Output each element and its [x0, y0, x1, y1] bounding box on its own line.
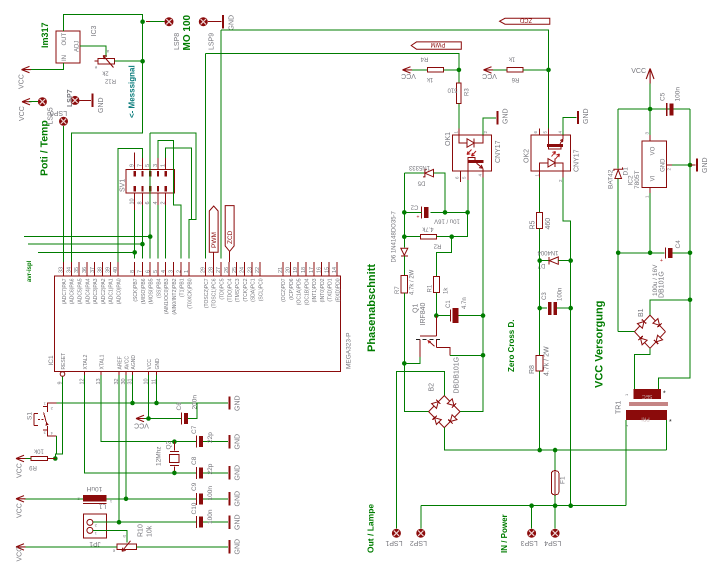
- ground symbol at OK2: [577, 111, 579, 124]
- svg-text:CNY17: CNY17: [574, 149, 581, 172]
- node junction left column C2: [402, 210, 407, 215]
- svg-text:OK2: OK2: [524, 149, 531, 163]
- resistor R8 4.7k/2W: [536, 356, 543, 371]
- svg-text:16: 16: [317, 267, 323, 273]
- IC1 top pin 22 (SCL)PC0: [259, 262, 261, 276]
- wire D6 to R7: [403, 256, 405, 276]
- svg-text:JP1: JP1: [89, 540, 101, 547]
- wire XTAL2 to crystal bottom: [85, 375, 197, 473]
- svg-text:C6: C6: [176, 402, 183, 411]
- svg-text:14: 14: [332, 267, 338, 273]
- node junction B1 top on right rail: [688, 298, 693, 303]
- svg-text:22p: 22p: [207, 432, 214, 443]
- pad LSP8: [165, 17, 174, 26]
- wire OK1 pin 5 down: [467, 180, 469, 212]
- svg-text:LSP9: LSP9: [209, 33, 216, 50]
- voltage regulator IC3 lm317: [56, 31, 80, 63]
- svg-text:C8: C8: [191, 456, 198, 465]
- IC1 top pin 7 (MISO)PB6: [141, 262, 143, 276]
- svg-text:10u / 16V: 10u / 16V: [434, 217, 460, 223]
- node junction MOSI: [148, 234, 153, 239]
- wire VCC pin 10 down: [148, 375, 150, 419]
- IC1 top pin 28 (TOSC1)PC6: [212, 262, 214, 276]
- wire AGND pin to GND line: [132, 375, 134, 403]
- svg-text:R4: R4: [420, 55, 428, 61]
- IC1 top pin 23 (SDA)PC1: [251, 262, 253, 276]
- node junction D5/C2: [443, 210, 448, 215]
- IC1 top pin 19 (OC1A)PD5: [297, 262, 299, 276]
- wire R10 left to VCC: [24, 546, 117, 548]
- IC1 top pin 17 (INT1)PD3: [313, 262, 315, 276]
- resistor R6 1k: [507, 68, 523, 72]
- svg-text:MEGA323-P: MEGA323-P: [346, 333, 353, 370]
- wire ADJ pin of IC3 to trimmer R12: [80, 46, 106, 57]
- svg-text:21: 21: [278, 267, 284, 273]
- wire R7 down to drain node: [403, 293, 405, 363]
- svg-text:(TOSC2)PC7: (TOSC2)PC7: [204, 278, 210, 308]
- svg-text:(OC1A)PD5: (OC1A)PD5: [296, 278, 302, 305]
- OK1 phototransistor: [468, 160, 484, 163]
- supply symbol VCC at R10: [16, 544, 26, 550]
- svg-text:33: 33: [59, 267, 65, 273]
- svg-text:100n: 100n: [675, 87, 682, 102]
- svg-text:(ADC1)PA1: (ADC1)PA1: [109, 278, 115, 304]
- wire SV1 pin 7 to IC pin 40: [118, 149, 142, 262]
- wire LSP9 to ground: [208, 21, 222, 23]
- svg-text:LSP1: LSP1: [385, 539, 402, 546]
- wire SV1 pin 4 column to IC pin 5: [157, 205, 159, 259]
- supply symbol VCC at L1: [16, 496, 26, 502]
- svg-text:4.7k / 2W: 4.7k / 2W: [544, 346, 551, 376]
- svg-text:34: 34: [66, 267, 72, 273]
- wire B1 top vertex to right rail: [650, 300, 690, 315]
- svg-text:(RXD)PD0: (RXD)PD0: [336, 278, 342, 302]
- svg-text:PRI: PRI: [641, 415, 649, 421]
- IC1 bottom pin 9 RESET: [60, 372, 65, 377]
- ground symbol C7: [229, 435, 231, 448]
- svg-text:<- Messsignal: <- Messsignal: [128, 65, 137, 118]
- svg-text:C9: C9: [191, 482, 198, 491]
- diode D7 1N4004: [540, 260, 550, 262]
- wire LSP7 to ground: [80, 99, 91, 101]
- wire SV1 pin 8 column to IC pin 7: [141, 205, 143, 259]
- IC1 top pin 6 (MOSI)PB5: [149, 262, 151, 276]
- svg-text:R9: R9: [29, 464, 37, 470]
- wire mains line B: [421, 505, 626, 507]
- svg-text:R6: R6: [511, 76, 519, 82]
- IC1 bottom pin 12 XTAL2: [84, 372, 86, 376]
- diode D6 1N4148DO35-7: [401, 248, 408, 255]
- svg-text:IN / Power: IN / Power: [500, 514, 509, 553]
- svg-text:460: 460: [545, 218, 552, 230]
- bridge rectifier B2 DBDB101G: [429, 396, 445, 412]
- svg-text:10k: 10k: [146, 525, 153, 537]
- wire L1 to VCC: [24, 498, 83, 500]
- wire R3 to OK1 pin 1: [458, 104, 460, 129]
- svg-text:27: 27: [216, 267, 222, 273]
- left rail down to D1: [617, 109, 619, 169]
- jumper JP1: [84, 514, 107, 538]
- resistor R5 460: [539, 178, 541, 213]
- IC1 top pin 39 (ADC1)PA1: [109, 262, 111, 276]
- IC1 top pin 25 (TMS)PC3: [236, 262, 238, 276]
- svg-text:OUT: OUT: [62, 33, 68, 46]
- wire source rail from OK1 pin4 down to B2: [460, 178, 483, 412]
- svg-text:(AIN0/INT2)PB2: (AIN0/INT2)PB2: [172, 278, 178, 314]
- wire IC pin 27 up to ZCD net: [220, 30, 222, 259]
- wire R4 to PWM junction: [444, 69, 459, 71]
- svg-text:R5: R5: [530, 220, 537, 229]
- svg-text:GND: GND: [235, 539, 242, 555]
- svg-text:200n: 200n: [192, 395, 199, 410]
- svg-text:OK1: OK1: [445, 132, 452, 146]
- svg-text:C5: C5: [659, 92, 666, 101]
- svg-text:IRF840: IRF840: [420, 302, 427, 325]
- ground symbol R10: [229, 540, 231, 553]
- node junction C4 left: [616, 251, 621, 256]
- transformer TR1 secondary coil: [634, 389, 662, 399]
- wire PWM net horizontal: [206, 54, 459, 70]
- wire XTAL1 to crystal top: [101, 375, 197, 442]
- node junction gate/C1: [434, 313, 439, 318]
- node junction rail on line B: [568, 503, 573, 508]
- wire to pad LSP8: [146, 21, 165, 23]
- wire TR1 primary right down to line A: [666, 420, 668, 450]
- svg-text:D5: D5: [417, 179, 425, 185]
- IC1 top pin 27 (TDI)PC5: [220, 262, 222, 276]
- node junction D7: [537, 258, 542, 263]
- svg-text:29: 29: [201, 267, 207, 273]
- svg-text:7: 7: [138, 270, 144, 273]
- OK2 internal LED: [540, 163, 548, 171]
- svg-text:2k: 2k: [101, 69, 108, 75]
- node junction LSP3 on line B: [529, 503, 534, 508]
- svg-text:ZCD: ZCD: [227, 230, 234, 244]
- IC1 bottom pin 11 GND: [156, 372, 158, 376]
- svg-text:6: 6: [145, 270, 151, 273]
- svg-text:XTAL1: XTAL1: [99, 354, 105, 369]
- svg-text:VCC: VCC: [17, 547, 24, 562]
- svg-text:CNY17: CNY17: [495, 140, 502, 163]
- svg-text:100n: 100n: [558, 288, 564, 301]
- resistor R2 4.7k: [404, 236, 420, 238]
- wire left rail down to B1: [617, 253, 619, 332]
- svg-text:LSP6: LSP6: [50, 109, 67, 116]
- svg-text:40: 40: [113, 267, 119, 273]
- svg-text:lm317: lm317: [40, 22, 50, 48]
- svg-text:LSP2: LSP2: [410, 539, 427, 546]
- svg-text:(SCL)PC0: (SCL)PC0: [259, 278, 265, 301]
- pad LSP1 lamp output: [392, 529, 401, 538]
- svg-text:(ADC7)PA7: (ADC7)PA7: [62, 278, 68, 304]
- wire VCC to R4: [412, 69, 428, 71]
- wire VCC to pad LSP5: [29, 101, 38, 103]
- svg-text:VCC: VCC: [482, 72, 497, 79]
- supply symbol VCC at IC power: [136, 415, 146, 421]
- svg-text:3: 3: [153, 164, 159, 167]
- svg-text:17: 17: [309, 267, 315, 273]
- svg-text:D7: D7: [537, 262, 545, 268]
- wire SV1 pin 5/6 column to IC pin 6: [149, 133, 151, 259]
- svg-text:+: +: [417, 215, 420, 221]
- wire VCC stem to 5V rail: [649, 84, 651, 110]
- IC1 top pin 3 (AIN0/INT2)PB2: [172, 262, 174, 276]
- SV1 pin stub column 0: [134, 158, 136, 170]
- svg-text:R1: R1: [428, 284, 434, 292]
- trimmer resistor R10 10k: [117, 544, 137, 550]
- svg-text:*: *: [663, 391, 666, 398]
- IC1 top pin 40 (ADC0)PA0: [117, 262, 119, 276]
- svg-text:25: 25: [232, 267, 238, 273]
- wire R1 down to gate node: [435, 292, 437, 315]
- wire D5 to C2 net: [434, 173, 446, 212]
- svg-text:4.7n: 4.7n: [462, 297, 468, 309]
- net label PWM horizontal arrow: [411, 42, 461, 49]
- resistor R1 1k: [433, 276, 439, 292]
- ground symbol C8: [229, 466, 231, 479]
- OK2 light arrows: [552, 152, 556, 157]
- svg-text:20: 20: [286, 267, 292, 273]
- svg-text:1k: 1k: [508, 55, 515, 61]
- microcontroller IC1 MEGA323-P body: [55, 276, 341, 372]
- svg-text:R12: R12: [104, 77, 116, 83]
- svg-text:(MOSI)PB5: (MOSI)PB5: [149, 278, 155, 304]
- svg-text:C1: C1: [446, 300, 452, 308]
- wire B2 left vertex to drain node: [404, 363, 428, 411]
- svg-text:GND: GND: [235, 514, 242, 530]
- wire outer loop LSP1 to B2 top: [396, 372, 444, 529]
- svg-text:LSP4: LSP4: [544, 539, 561, 546]
- wire R6 to ZCD junction: [523, 69, 549, 71]
- svg-text:VCC: VCC: [19, 74, 26, 89]
- pad LSP3 mains input: [527, 529, 536, 538]
- svg-text:(OC2)PD7: (OC2)PD7: [281, 278, 287, 302]
- wire B1 bottom to transformer SEC left: [635, 348, 650, 389]
- capacitor C5 100n: [666, 103, 668, 116]
- svg-text:10k: 10k: [33, 447, 44, 453]
- wire S1 to GND line: [56, 402, 57, 404]
- node junction source rail: [481, 353, 486, 358]
- svg-text:VCC Versorgung: VCC Versorgung: [594, 301, 606, 388]
- ground symbol C10: [229, 516, 231, 529]
- svg-text:L1: L1: [99, 503, 107, 510]
- svg-text:S1: S1: [27, 412, 34, 420]
- svg-text:28: 28: [208, 267, 214, 273]
- wire GND pin to GND line: [156, 375, 158, 403]
- svg-text:VCC: VCC: [401, 72, 416, 79]
- node junction reset/R9: [53, 456, 58, 461]
- svg-text:22p: 22p: [207, 463, 214, 474]
- svg-text:39: 39: [105, 267, 111, 273]
- wire AREF down to JP1 node: [118, 375, 120, 522]
- capacitor C4 100u/16V polarized: [618, 252, 664, 254]
- resistor R9 10k: [31, 456, 48, 460]
- wire IC pin 29 up to PWM net: [205, 54, 207, 259]
- svg-text:2: 2: [176, 270, 182, 273]
- wire SV1 pin 10 column to IC pin 8: [134, 210, 136, 259]
- ground symbol at OK1: [497, 111, 499, 124]
- svg-text:24: 24: [240, 267, 246, 273]
- wire OK1 pin 2 to ground: [483, 118, 496, 135]
- pad LSP4 mains input: [551, 529, 560, 538]
- svg-text:MO 100: MO 100: [182, 14, 193, 50]
- svg-text:4: 4: [153, 201, 159, 204]
- net label ZCD vertical arrow at pin 26: [225, 206, 234, 252]
- svg-text:VCC: VCC: [631, 68, 646, 75]
- svg-text:Zero Cross D.: Zero Cross D.: [507, 320, 516, 372]
- capacitor C7 22p: [196, 436, 198, 448]
- svg-text:GND: GND: [235, 434, 242, 450]
- svg-text:3: 3: [169, 270, 175, 273]
- capacitor C2 10u/16V polarized: [421, 206, 423, 218]
- svg-text:4.7k / 2W: 4.7k / 2W: [410, 269, 416, 295]
- IC1 top pin 35 (ADC5)PA5: [78, 262, 80, 276]
- node junction at measurement rail / LSP8 tap: [140, 19, 145, 24]
- svg-text:GND: GND: [503, 108, 510, 124]
- svg-text:ADJ: ADJ: [74, 41, 80, 52]
- svg-text:(T0/XCK)PB0: (T0/XCK)PB0: [187, 278, 193, 309]
- wire down to OK2 pin 5: [548, 70, 550, 135]
- svg-text:35: 35: [74, 267, 80, 273]
- supply symbol VCC at R4: [403, 67, 413, 73]
- svg-text:15: 15: [324, 267, 330, 273]
- svg-text:9: 9: [130, 164, 136, 167]
- connector SV1 10-pin ISP header: [126, 170, 174, 194]
- trimmer resistor R12 2k: [98, 59, 115, 64]
- svg-text:SEC: SEC: [642, 393, 653, 399]
- optocoupler OK2 CNY17: [531, 135, 571, 171]
- diode D1 BAT42 schottky: [615, 170, 622, 179]
- IC1 top pin 2 (T1)PB1: [180, 262, 182, 276]
- supply symbol VCC at LSP5: [22, 99, 32, 105]
- svg-text:C4: C4: [675, 240, 682, 249]
- svg-text:R7: R7: [395, 286, 401, 294]
- node junction R8 on line A: [537, 448, 542, 453]
- svg-text:D1: D1: [622, 167, 629, 176]
- SV1 pin stub column 4: [165, 158, 167, 170]
- svg-text:IC1: IC1: [48, 355, 55, 366]
- SV1 pin stub column 1: [141, 158, 143, 170]
- svg-text:38: 38: [98, 267, 104, 273]
- svg-text:TR1: TR1: [615, 401, 622, 414]
- svg-text:AVCC: AVCC: [124, 356, 130, 370]
- wire R8 down to mains line A: [539, 371, 541, 450]
- svg-text:23: 23: [247, 267, 253, 273]
- wire C3 to R8: [539, 308, 541, 356]
- node junction R12 / rail: [140, 59, 145, 64]
- supply symbol VCC above regulator: [646, 69, 654, 84]
- crystal Q2 12Mhz: [173, 442, 175, 451]
- ISP bus wire MOSI: [24, 236, 150, 238]
- svg-text:ZCD: ZCD: [519, 17, 532, 23]
- node junction AGND: [130, 401, 135, 406]
- node junction VCC arrow: [648, 107, 653, 112]
- transformer TR1 core lines: [629, 402, 668, 404]
- svg-text:1N4004: 1N4004: [537, 249, 559, 255]
- svg-text:R2: R2: [433, 242, 441, 248]
- wire RESET column: [55, 376, 62, 458]
- svg-text:(MISO)PB6: (MISO)PB6: [141, 278, 147, 304]
- svg-text:100n: 100n: [207, 486, 214, 501]
- SV1 pin stub column 2: [149, 158, 151, 170]
- svg-text:Poti / Temp: Poti / Temp: [39, 120, 51, 176]
- node junction F1 top on line A: [553, 448, 558, 453]
- svg-text:LSP8: LSP8: [174, 33, 181, 50]
- wire pin 26 stub to ZCD label: [229, 251, 231, 262]
- wire JP1 pin 1 to R10 wiper: [93, 530, 127, 542]
- svg-text:VO: VO: [651, 146, 657, 155]
- svg-text:1k: 1k: [444, 287, 450, 294]
- wire L1 right to node: [107, 498, 127, 500]
- svg-text:(INT1)PD3: (INT1)PD3: [312, 278, 318, 302]
- IC1 top pin 14 (RXD)PD0: [336, 262, 338, 276]
- IC1 top pin 33 (ADC7)PA7: [63, 262, 65, 276]
- svg-text:C7: C7: [191, 425, 198, 434]
- node junction R2 left: [402, 234, 407, 239]
- voltage regulator IC2 7805T: [642, 141, 666, 188]
- svg-text:4.7k: 4.7k: [421, 226, 433, 232]
- IC1 top pin 29 (TOSC2)PC7: [205, 262, 207, 276]
- node junction PWM/R4/R3: [457, 68, 462, 73]
- wire D1 down left rail: [617, 179, 619, 253]
- node junction R2 right: [449, 234, 454, 239]
- wire R2 right down to R1: [436, 237, 451, 277]
- wire S1 lower contact to reset net: [55, 436, 57, 454]
- capacitor C10 100n: [119, 521, 197, 523]
- svg-text:1N5333: 1N5333: [408, 164, 430, 170]
- svg-text:*: *: [669, 419, 672, 426]
- IC1 top pin 34 (ADC6)PA6: [70, 262, 72, 276]
- svg-text:5: 5: [153, 270, 159, 273]
- OK2 phototransistor on top: [547, 144, 563, 147]
- svg-text:D6 1N4148DO35-7: D6 1N4148DO35-7: [392, 210, 398, 262]
- wire R12 right end to measurement rail: [115, 60, 143, 62]
- svg-text:VCC: VCC: [17, 463, 24, 478]
- wire pin 28 stub to PWM label: [213, 252, 215, 262]
- svg-text:26: 26: [224, 267, 230, 273]
- svg-text:(SCK)PB7: (SCK)PB7: [133, 278, 139, 301]
- pad LSP6 wiper: [59, 117, 68, 126]
- svg-text:(TXD)PD1: (TXD)PD1: [328, 278, 334, 301]
- svg-text:DB101G: DB101G: [659, 271, 666, 298]
- svg-text:18: 18: [301, 267, 307, 273]
- wire R5 to D7 node: [539, 229, 541, 261]
- wire R10 right to ground: [137, 546, 229, 548]
- IC1 top pin 38 (ADC2)PA2: [102, 262, 104, 276]
- wire LSP3 to line B: [531, 506, 533, 529]
- IC1 top pin 5 (SS)PB4: [157, 262, 159, 276]
- svg-text:SV1: SV1: [120, 179, 127, 192]
- IC1 top pin 16 (INT0)PD2: [321, 262, 323, 276]
- switch S1 pushbutton: [47, 403, 56, 412]
- transformer TR1 primary coil: [626, 410, 667, 420]
- wire C3 node down: [539, 261, 541, 309]
- svg-text:(ADC6)PA6: (ADC6)PA6: [70, 278, 76, 304]
- wire OUT of IC3 to top rail: [64, 14, 143, 61]
- wire SV1 pin 1 stair to IC pin 1: [166, 148, 192, 258]
- wire right rail down to transformer SEC right: [658, 300, 690, 389]
- svg-text:100n: 100n: [207, 509, 214, 524]
- SV1 pin 9 long stub: [134, 153, 136, 158]
- node junction MISO: [140, 242, 145, 247]
- svg-text:GND: GND: [155, 358, 161, 370]
- svg-text:C10: C10: [191, 502, 198, 514]
- svg-text:(ADC0)PA0: (ADC0)PA0: [117, 278, 123, 304]
- node junction C4 right: [688, 251, 693, 256]
- svg-text:VCC: VCC: [19, 106, 26, 121]
- net label ZCD horizontal arrow: [500, 18, 550, 24]
- svg-text:RESET: RESET: [61, 353, 67, 370]
